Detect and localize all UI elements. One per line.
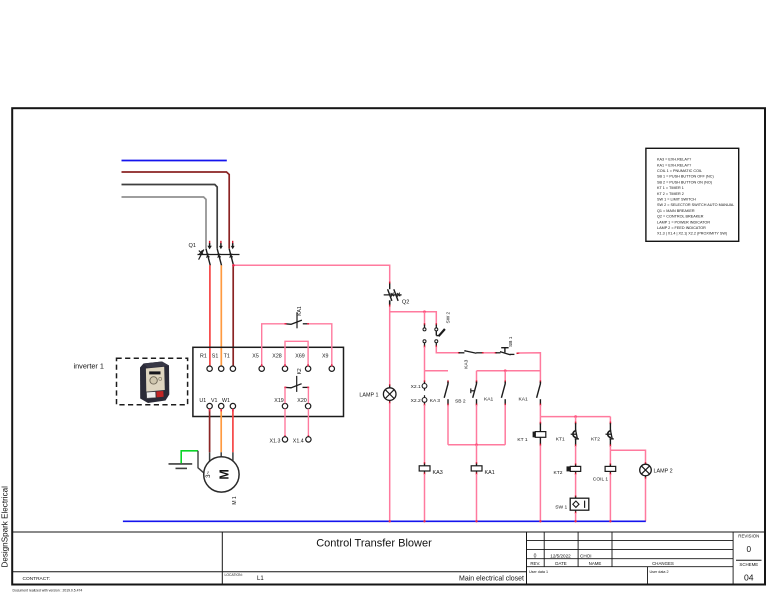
svg-text:KT1: KT1 <box>556 437 565 443</box>
wire seal-in bus <box>448 444 505 446</box>
wire L3 dark red feeder <box>122 172 230 249</box>
wire KA1 coil to N bus <box>476 474 478 521</box>
breaker Q1 pole 2 terminal arrow <box>219 241 223 249</box>
svg-text:KA1: KA1 <box>485 470 495 476</box>
wire L2 dark gray feeder <box>122 185 218 249</box>
svg-text:X69: X69 <box>295 354 304 360</box>
wire X2.1 drop <box>424 371 426 382</box>
svg-text:KA1: KA1 <box>484 396 494 402</box>
svg-text:KT2: KT2 <box>554 470 563 476</box>
svg-text:M 1: M 1 <box>232 496 238 505</box>
terminal X5 <box>252 354 264 372</box>
node N bus junctions <box>389 520 612 522</box>
node U1 tick <box>209 409 211 411</box>
svg-text:K2: K2 <box>297 368 303 374</box>
svg-text:M: M <box>218 469 232 479</box>
svg-text:X1.4: X1.4 <box>293 438 304 444</box>
breaker Q1 <box>198 249 240 266</box>
wire KT2 contact to junction <box>609 446 611 450</box>
svg-text:LAMP 2: LAMP 2 <box>654 468 673 474</box>
svg-text:L1: L1 <box>257 576 264 582</box>
wire KT2 coil to SW1 <box>575 474 577 497</box>
ground <box>169 464 193 469</box>
svg-text:REV.: REV. <box>530 561 540 566</box>
svg-text:SW 1 = LIMIT SWITCH: SW 1 = LIMIT SWITCH <box>657 198 696 202</box>
wire LAMP1 to N bus <box>389 403 391 521</box>
contact K2 changeover <box>284 368 309 392</box>
svg-text:SW 2: SW 2 <box>445 311 451 323</box>
wire control feed from Q1 to Q2 pink <box>233 265 390 283</box>
wire KA3 contact to SB1 <box>484 352 496 354</box>
svg-text:KA3: KA3 <box>464 359 470 368</box>
svg-text:KT 1 = TIMER 1: KT 1 = TIMER 1 <box>657 186 684 190</box>
lamp LAMP 2 <box>640 462 673 479</box>
wire Q2 branch to SW2 <box>390 312 437 325</box>
svg-text:LAMP 2 = FEED INDICATOR: LAMP 2 = FEED INDICATOR <box>657 226 706 230</box>
svg-text:X5: X5 <box>252 354 259 360</box>
wire bridge X28 to X69 <box>285 341 308 366</box>
svg-text:Control Transfer Blower: Control Transfer Blower <box>316 538 432 550</box>
svg-text:X2.1: X2.1 <box>411 384 421 390</box>
svg-text:0: 0 <box>747 545 752 554</box>
svg-text:04: 04 <box>744 573 754 583</box>
svg-text:KA1: KA1 <box>297 306 303 316</box>
contact KA1 changeover above box <box>285 306 310 328</box>
svg-text:LAMP 1 = POWER INDICATOR: LAMP 1 = POWER INDICATOR <box>657 220 710 224</box>
svg-text:Q2: Q2 <box>402 300 409 306</box>
inverter 1 drive picture <box>140 362 169 404</box>
inverter 1 label <box>74 362 104 371</box>
svg-text:S1: S1 <box>212 354 219 360</box>
svg-text:KT 1: KT 1 <box>517 437 528 443</box>
svg-text:Q1 = MAIN BREAKER: Q1 = MAIN BREAKER <box>657 209 695 213</box>
svg-text:SW 1: SW 1 <box>555 505 567 511</box>
contact KT2 delayed <box>591 417 614 447</box>
contact KA1 NO vertical first <box>484 371 505 406</box>
node X28 tick <box>284 364 286 366</box>
svg-text:SB 2: SB 2 <box>455 399 466 405</box>
svg-text:SB 2 = PUSH BUTTON ON (NO): SB 2 = PUSH BUTTON ON (NO) <box>657 180 713 184</box>
svg-text:SCHEME: SCHEME <box>739 562 758 567</box>
wire ground to motor <box>198 451 204 473</box>
terminal R1 <box>200 354 212 372</box>
node manual bus junction KA1 <box>504 369 507 372</box>
svg-text:KA1: KA1 <box>519 396 529 402</box>
coil COIL 1 <box>593 463 616 482</box>
wire Q1 to T1 dark red <box>232 265 234 366</box>
wire W1 to motor red <box>232 409 234 461</box>
svg-text:T1: T1 <box>224 354 230 360</box>
wire KT1 contact to KT2 coil <box>575 446 577 465</box>
svg-text:DesignSpark Electrical: DesignSpark Electrical <box>1 486 10 568</box>
node seal-in junction <box>475 443 478 446</box>
terminal T1 <box>224 354 236 372</box>
svg-text:SW 2 = SELECTOR SWITCH AUTO MA: SW 2 = SELECTOR SWITCH AUTO MANUAL <box>657 203 734 207</box>
wire KA1 contact to X9 <box>309 324 332 366</box>
contact KA1 NO vertical second <box>519 380 541 406</box>
wire X19 to X1.3 <box>284 409 286 437</box>
wire manual bus lower <box>477 370 541 372</box>
svg-text:X9: X9 <box>322 354 329 360</box>
node X69 tick <box>307 364 309 366</box>
contact KT 1 box type <box>517 417 545 447</box>
svg-text:X1.3 | X1.4 | X2.1| X2.2 (PROX: X1.3 | X1.4 | X2.1| X2.2 (PROXIMITY SW) <box>657 232 728 236</box>
footer version note <box>13 589 83 593</box>
wire LAMP2 to N bus <box>645 479 647 522</box>
coil KT2 <box>554 463 581 476</box>
svg-text:V1: V1 <box>211 398 218 404</box>
wire to KA1 coil <box>476 445 478 464</box>
svg-text:Q1: Q1 <box>189 243 196 249</box>
motor M1 <box>204 457 239 505</box>
svg-text:User data 2: User data 2 <box>650 570 669 574</box>
wire SB2 down <box>476 405 478 445</box>
svg-text:X2.2: X2.2 <box>411 398 421 404</box>
wire SW1 to N bus <box>575 513 577 521</box>
terminal V1 <box>211 398 224 409</box>
push button SB2 (NO) <box>455 371 477 406</box>
wire K2 to X19 <box>284 388 286 404</box>
svg-text:X1.3: X1.3 <box>270 438 281 444</box>
wire timer bus <box>540 416 610 418</box>
revision cell <box>736 533 762 582</box>
svg-text:Main electrical closet: Main electrical closet <box>459 575 524 582</box>
svg-text:LAMP 1: LAMP 1 <box>359 393 378 399</box>
svg-text:KT2: KT2 <box>591 437 600 443</box>
svg-text:CHOI: CHOI <box>580 554 591 559</box>
svg-text:NAME: NAME <box>589 561 602 566</box>
node branch junction <box>423 310 426 313</box>
breaker Q1 label <box>189 243 196 249</box>
limit switch SW 1 <box>555 495 589 514</box>
terminal W1 <box>222 398 236 409</box>
svg-text:COIL 1: COIL 1 <box>593 477 609 483</box>
svg-text:KA3: KA3 <box>433 470 443 476</box>
terminal X9 <box>322 354 334 372</box>
breaker Q1 pole 3 terminal arrow <box>231 241 235 249</box>
svg-text:W1: W1 <box>222 398 230 404</box>
selector switch SW2 <box>423 311 451 347</box>
svg-text:U1: U1 <box>199 398 206 404</box>
legend text <box>657 158 734 236</box>
svg-text:COIL 1 = PNUMATIC COIL: COIL 1 = PNUMATIC COIL <box>657 169 702 173</box>
wire KA3 contact down <box>447 405 449 445</box>
svg-text:3~: 3~ <box>206 470 212 477</box>
wire COIL1 to N bus <box>609 474 611 521</box>
wire ground green <box>181 451 198 463</box>
svg-text:REVISION: REVISION <box>738 533 759 538</box>
svg-text:CONTRACT:: CONTRACT: <box>23 576 50 582</box>
wire X20 to X1.4 <box>307 409 309 437</box>
node V1 tick <box>220 409 222 411</box>
terminal X19 <box>274 398 287 409</box>
node W1 tick <box>232 409 234 411</box>
terminal X2.2 <box>411 395 441 406</box>
svg-text:inverter 1: inverter 1 <box>74 362 104 371</box>
wire L1 gray feeder <box>122 197 207 249</box>
drawing frame <box>12 108 765 584</box>
terminal X2.1 <box>411 380 427 390</box>
wire Q1 to S1 orange <box>220 265 222 366</box>
coil KA1 <box>471 462 495 476</box>
svg-text:DATE: DATE <box>555 561 566 566</box>
wire U1 to motor dark red <box>209 409 211 461</box>
svg-text:X20: X20 <box>297 398 306 404</box>
svg-text:KA3 = EXH.RELAY?: KA3 = EXH.RELAY? <box>657 158 691 162</box>
wire Q2 out down to lamp column <box>389 307 391 386</box>
wire Q1 to R1 red <box>209 265 211 366</box>
svg-text:KA1 = EXH.RELAY?: KA1 = EXH.RELAY? <box>657 163 691 167</box>
terminal U1 <box>199 398 212 409</box>
inverter 1 dashed enclosure <box>117 358 188 405</box>
wire junction to COIL 1 <box>609 450 611 464</box>
title block <box>13 532 765 585</box>
wire K2 to X20 <box>307 388 309 404</box>
contact KT1 delayed <box>556 417 579 447</box>
svg-text:Q2 = CONTROL BREAKER: Q2 = CONTROL BREAKER <box>657 215 704 219</box>
wire KA1 second down to timer bus <box>539 405 541 417</box>
svg-text:KT 2 = TIMER 2: KT 2 = TIMER 2 <box>657 192 684 196</box>
push button SB1 (NC) <box>495 336 520 355</box>
breaker Q1 pole 1 terminal arrow <box>207 241 211 250</box>
svg-text:SB 1: SB 1 <box>508 336 514 347</box>
revision table text <box>529 554 674 574</box>
svg-text:User data 1: User data 1 <box>529 570 548 574</box>
wire SW2 left pole down <box>424 347 426 371</box>
svg-text:0: 0 <box>534 554 537 560</box>
title text <box>23 538 525 583</box>
wire junction to LAMP2 <box>610 450 645 463</box>
wire SW2 right pole to manual bus <box>436 347 459 353</box>
terminal X28 <box>272 354 287 372</box>
node Q1 pole3 tap <box>232 264 235 267</box>
wire KT1 down to N bus <box>539 445 541 521</box>
svg-text:R1: R1 <box>200 354 207 360</box>
revision table <box>527 532 734 585</box>
wire SW2 left bus to KA3 contact <box>425 370 449 372</box>
svg-text:KA 3: KA 3 <box>430 398 441 404</box>
wire X2.2 to KA3 coil <box>424 405 426 464</box>
wire KA3 coil to N bus <box>424 474 426 521</box>
contact KA3 horizontal <box>458 350 484 369</box>
coil KA3 <box>419 462 443 476</box>
svg-text:SB 1 = PUSH BUTTON OFF (NC): SB 1 = PUSH BUTTON OFF (NC) <box>657 175 714 179</box>
terminal X1.4 <box>293 435 311 444</box>
legend box <box>646 148 739 241</box>
sidebar brand text DesignSpark Electrical <box>1 486 10 568</box>
node X5 tick <box>261 364 263 366</box>
node timer bus junction <box>574 415 577 418</box>
wire V1 to motor orange <box>220 409 222 457</box>
neutral bus N blue <box>123 520 646 522</box>
svg-text:X28: X28 <box>272 354 281 360</box>
svg-text:LOCATION:: LOCATION: <box>225 573 243 577</box>
wire L-N blue feeder <box>122 160 227 162</box>
terminal X20 <box>297 398 311 409</box>
wire branch to SW2 left pole <box>424 312 426 325</box>
breaker Q2 <box>384 282 410 308</box>
terminal X1.3 <box>270 435 288 444</box>
svg-text:Document realized with version: Document realized with version : 2019.0.… <box>13 589 83 593</box>
terminal X69 <box>295 354 311 372</box>
wire KA1 contact down <box>504 405 506 445</box>
lamp LAMP 1 <box>359 384 396 404</box>
svg-text:CHANGES: CHANGES <box>652 561 674 566</box>
node X9 tick <box>331 364 333 366</box>
wire SB1 to corner <box>519 353 541 382</box>
svg-text:X19: X19 <box>274 398 283 404</box>
terminal S1 <box>212 354 224 372</box>
svg-text:12/5/2022: 12/5/2022 <box>550 554 571 559</box>
wire X5 to KA1 contact <box>262 324 285 366</box>
contact KA3 NO vertical <box>444 380 448 406</box>
terminal box enclosure <box>193 347 344 416</box>
